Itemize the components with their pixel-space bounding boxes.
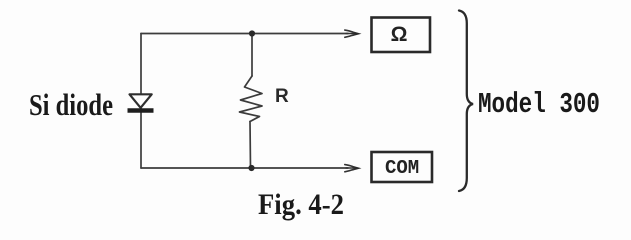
node junction dot bottom — [248, 165, 254, 171]
svg-text:Ω: Ω — [391, 23, 408, 46]
svg-text:Fig. 4-2: Fig. 4-2 — [258, 188, 344, 221]
wire resistor branch upper lead — [251, 34, 253, 77]
diode D cathode bar — [128, 108, 154, 112]
svg-text:Si diode: Si diode — [29, 87, 113, 122]
wire resistor branch lower lead — [249, 122, 252, 169]
node junction dot top — [249, 30, 255, 36]
wire left rail — [140, 34, 142, 169]
resistor R zigzag — [240, 76, 263, 122]
arrow to COM terminal — [345, 165, 362, 172]
terminal box ohms — [372, 18, 431, 53]
wire top rail — [141, 33, 348, 35]
diode D (Si diode) triangle — [130, 94, 152, 108]
brace right (Model 300 bracket) — [459, 11, 473, 192]
svg-text:R: R — [275, 86, 289, 107]
svg-text:Model 300: Model 300 — [478, 88, 600, 121]
terminal box COM — [372, 152, 433, 182]
svg-text:COM: COM — [385, 157, 419, 179]
wire bottom rail — [141, 167, 348, 169]
arrow to ohms terminal — [345, 30, 362, 37]
